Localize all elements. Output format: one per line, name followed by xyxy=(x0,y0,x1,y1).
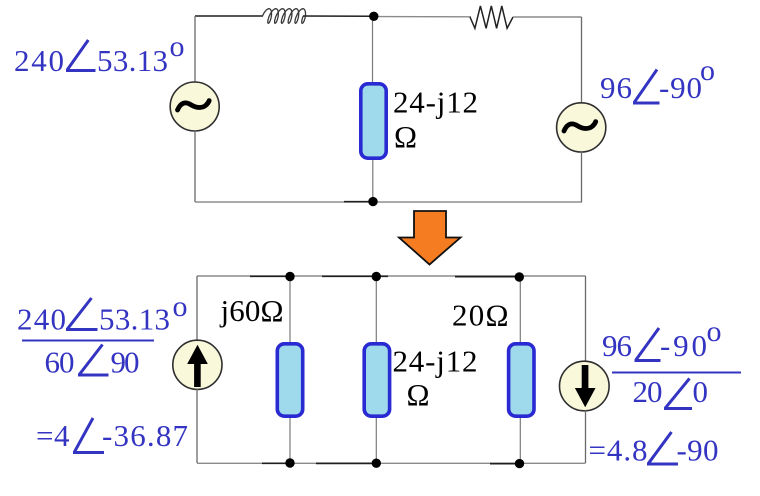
svg-text:20: 20 xyxy=(633,374,663,409)
label I1 result =4 angle -36.87 xyxy=(36,418,188,453)
wire bottom bottom black stub 1 xyxy=(262,462,287,464)
svg-text:Ω: Ω xyxy=(407,377,430,412)
wire top circuit left vertical upper xyxy=(194,16,196,83)
source V1 sine symbol xyxy=(178,101,210,110)
svg-text:240: 240 xyxy=(14,43,64,78)
svg-text:240: 240 xyxy=(17,302,66,337)
svg-text:24-j12: 24-j12 xyxy=(393,344,478,379)
svg-text:o: o xyxy=(707,315,722,348)
source V1 circle xyxy=(170,82,219,131)
node top circuit top junction xyxy=(369,12,378,21)
wire top circuit left vertical lower xyxy=(194,130,196,202)
wire bottom circuit left vertical lower xyxy=(196,389,198,463)
label I1 fraction bar xyxy=(22,340,154,342)
wire bottom circuit left vertical upper xyxy=(196,276,198,341)
label 96 angle -90 deg (top right) xyxy=(600,54,715,105)
wire branch 1 lower xyxy=(289,418,291,463)
label I2 fraction denominator 20 angle 0 xyxy=(633,374,709,409)
wire bottom circuit top segment (gray) xyxy=(197,275,586,277)
label I2 result =4.8 angle -90 xyxy=(589,432,719,468)
label 240 angle 53.13 deg (top left) xyxy=(14,30,185,78)
wire bottom circuit right vertical upper xyxy=(585,276,587,362)
svg-text:20Ω: 20Ω xyxy=(452,298,509,333)
svg-text:Ω: Ω xyxy=(394,119,417,154)
source V2 circle xyxy=(557,103,606,152)
svg-text:53.13: 53.13 xyxy=(99,302,170,337)
source I2 circle xyxy=(560,361,610,411)
wire top middle branch lower xyxy=(372,160,374,202)
svg-text:o: o xyxy=(173,290,188,323)
wire branch 3 lower xyxy=(519,418,521,463)
node bottom bottom junction 3 xyxy=(515,459,524,468)
wire bottom bottom black stub 3 xyxy=(490,463,517,465)
wire top circuit bottom segment (gray) xyxy=(195,201,582,203)
svg-text:60: 60 xyxy=(45,345,75,380)
svg-text:=4.8: =4.8 xyxy=(589,433,648,468)
svg-text:90: 90 xyxy=(111,345,140,380)
node bottom top junction 1 xyxy=(285,272,294,281)
wire top circuit bottom black stub at junction xyxy=(344,201,374,203)
source I2 down arrow xyxy=(576,366,595,407)
label I2 fraction bar xyxy=(612,372,741,374)
inductor L1 xyxy=(263,9,306,24)
source I1 circle xyxy=(173,340,222,389)
svg-text:53.13: 53.13 xyxy=(97,43,168,78)
svg-text:24-j12: 24-j12 xyxy=(393,85,478,120)
svg-text:o: o xyxy=(700,54,715,87)
wire bottom circuit bottom segment (gray) xyxy=(197,462,586,464)
source I1 up arrow xyxy=(188,346,207,387)
wire branch 2 upper xyxy=(375,276,377,344)
svg-text:-90: -90 xyxy=(659,70,702,105)
svg-text:96: 96 xyxy=(600,70,632,105)
wire top circuit top-left segment xyxy=(195,15,263,17)
wire top middle branch upper xyxy=(372,16,374,84)
svg-text:-90: -90 xyxy=(660,328,707,363)
impedance Z3 24-j12 box xyxy=(364,344,389,416)
wire bottom circuit right vertical lower xyxy=(585,410,587,463)
wire branch 3 upper xyxy=(519,276,521,344)
svg-text:0: 0 xyxy=(693,374,709,409)
node bottom top junction 2 xyxy=(372,272,381,281)
node bottom top junction 3 xyxy=(515,272,524,281)
wire top circuit top-right segment (gray) xyxy=(513,16,582,18)
impedance Z4 20 ohm box xyxy=(509,344,534,416)
wire bottom top black stub 1 xyxy=(250,275,287,277)
impedance Z2 j60 box xyxy=(277,344,302,416)
label I1 fraction numerator 240 angle 53.13 xyxy=(17,290,188,337)
wire top circuit top-middle segment left (black to junction) xyxy=(303,15,374,17)
svg-text:=4: =4 xyxy=(36,418,70,453)
wire top circuit right vertical upper xyxy=(581,17,583,104)
svg-text:-36.87: -36.87 xyxy=(102,418,188,453)
source V2 sine symbol xyxy=(564,122,596,131)
wire branch 1 upper xyxy=(289,276,291,344)
node top circuit bottom junction xyxy=(368,197,377,206)
label I2 fraction numerator 96 angle -90 xyxy=(602,315,722,363)
wire top circuit top-middle segment right (gray) xyxy=(374,16,471,18)
label I1 fraction denominator 60 angle 90 xyxy=(45,345,140,380)
node bottom bottom junction 1 xyxy=(285,458,294,467)
node bottom bottom junction 2 xyxy=(372,459,381,468)
svg-text:-90: -90 xyxy=(677,433,719,468)
wire bottom bottom black stub 2 xyxy=(316,462,373,464)
wire bottom top black stub 3 xyxy=(455,276,517,278)
svg-text:j60Ω: j60Ω xyxy=(220,293,284,328)
transform arrow (orange) xyxy=(399,211,461,265)
wire top circuit right vertical lower xyxy=(581,151,583,202)
svg-text:96: 96 xyxy=(602,328,632,363)
wire branch 2 lower xyxy=(375,418,377,463)
wire bottom top black stub 2 xyxy=(322,275,388,277)
impedance Z1 24-j12 box xyxy=(361,84,386,158)
resistor R1 xyxy=(470,6,513,28)
svg-text:o: o xyxy=(170,30,185,63)
